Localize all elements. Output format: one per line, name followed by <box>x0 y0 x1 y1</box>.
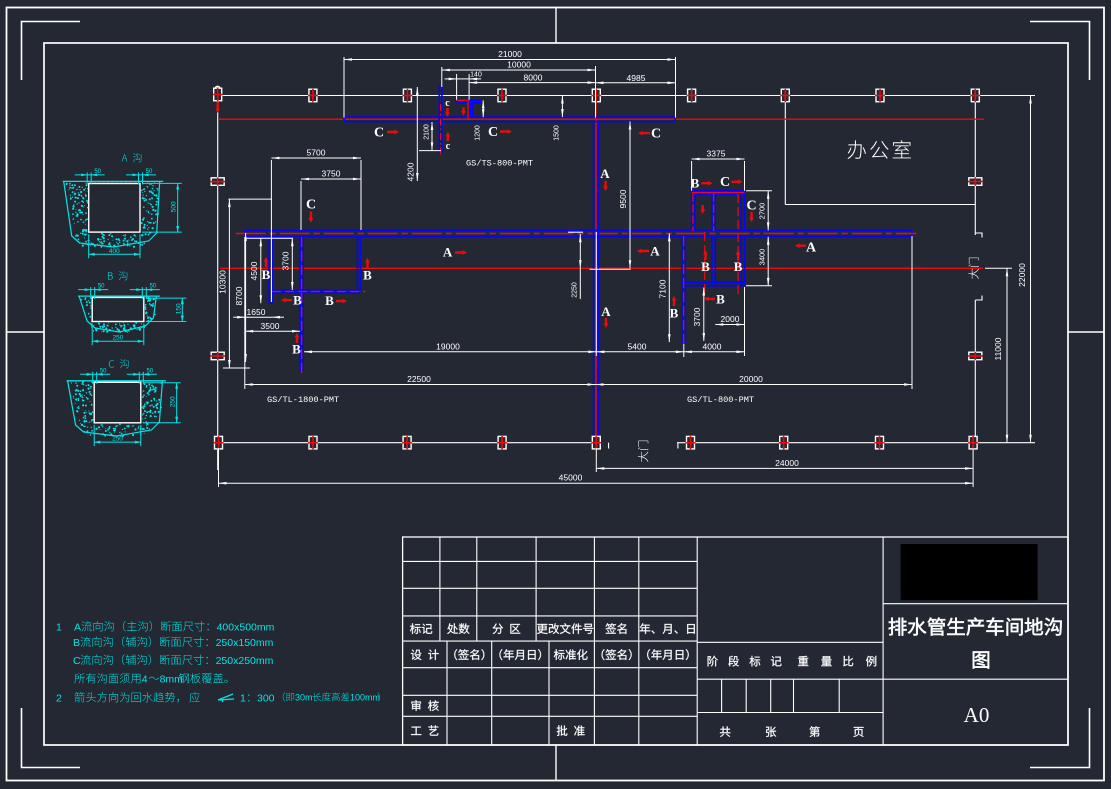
grid marker top x=691 <box>687 89 697 102</box>
svg-text:B: B <box>325 293 334 308</box>
svg-text:3700: 3700 <box>692 307 702 326</box>
right complex upper square right side <box>741 194 744 230</box>
title block right rows <box>883 603 1068 605</box>
left vertical trench x300 through <box>300 237 303 372</box>
svg-text:C: C <box>73 655 81 667</box>
svg-text:50: 50 <box>98 284 105 290</box>
ext line y268 right <box>985 267 1012 269</box>
right complex top bar <box>692 191 745 195</box>
svg-text:4200: 4200 <box>406 162 416 181</box>
dim 24000 <box>596 458 973 470</box>
ext y299 (1650) <box>244 299 246 321</box>
red dash centerline of main trench A <box>236 233 917 235</box>
centering mark left <box>7 331 45 333</box>
right wall lower <box>974 300 976 443</box>
dim 3700 right <box>692 288 705 342</box>
svg-text:B: B <box>262 267 271 282</box>
bottom gate tick right <box>677 443 679 449</box>
svg-text:50: 50 <box>146 169 153 175</box>
drawing title 排水管生产车间地沟图 <box>889 618 1062 636</box>
left branch B vertical x270 <box>269 237 272 304</box>
svg-text:10000: 10000 <box>507 60 531 70</box>
grid marker bottom x=783 <box>779 436 789 450</box>
label B + arrow up x297 lower <box>295 333 300 343</box>
svg-text:1500: 1500 <box>554 125 561 141</box>
dim 1500 <box>561 96 564 118</box>
grid marker bottom x=879 <box>875 436 885 450</box>
trench C small branch horizontal <box>456 100 482 103</box>
svg-text:2: 2 <box>56 693 62 705</box>
red centerline x738 <box>737 194 739 298</box>
svg-text:B: B <box>716 291 725 306</box>
dim 45000 <box>219 473 974 485</box>
section C-C trench detail <box>109 359 129 368</box>
dim 5400 <box>596 341 684 353</box>
svg-text:19000: 19000 <box>436 341 460 351</box>
title block upper-left grid <box>403 560 698 562</box>
svg-text:B: B <box>73 637 80 649</box>
svg-text:c: c <box>445 98 450 109</box>
svg-text:250: 250 <box>112 436 123 443</box>
svg-text:A: A <box>74 622 81 634</box>
red centerline lower vertical x301 <box>301 237 303 375</box>
slope symbol <box>218 694 234 702</box>
grid marker top x=785 <box>780 89 790 102</box>
svg-text:50: 50 <box>100 368 107 374</box>
svg-text:2100: 2100 <box>423 124 430 140</box>
ext x361 (5700/3750) <box>360 160 362 230</box>
cell 工艺 <box>411 725 438 735</box>
small red arrow down x702 <box>700 205 705 214</box>
section B-B trench detail <box>108 271 127 280</box>
dim 22500 <box>245 374 596 386</box>
grid marker top x=596 <box>591 89 601 102</box>
dim 11000 <box>993 268 1008 442</box>
label B + arrow up x266 <box>264 257 269 267</box>
label A + arrow left x795 (right side) <box>795 243 806 248</box>
ext x744.5 (3375) <box>744 161 746 191</box>
ext y285.7 right <box>746 285 772 287</box>
corner trim mark bottom-left <box>22 708 81 768</box>
dim 4000 <box>684 341 745 353</box>
svg-text:C: C <box>374 126 384 141</box>
svg-text:3700: 3700 <box>281 251 291 270</box>
svg-text:A0: A0 <box>964 703 990 727</box>
svg-text:20000: 20000 <box>739 374 763 384</box>
svg-text:8000: 8000 <box>524 73 543 83</box>
dim 22000 <box>1017 96 1032 443</box>
label office 办公室 <box>847 140 910 159</box>
svg-text:A: A <box>806 241 817 256</box>
label B + arrow up x674 <box>672 296 677 306</box>
left column grid line <box>217 86 219 470</box>
svg-text:250: 250 <box>113 335 124 342</box>
corner trim mark top-left <box>22 22 81 81</box>
ext line x469.1 <box>468 74 470 100</box>
grid marker bottom x=218 <box>214 436 224 450</box>
office partition left wall <box>784 96 786 205</box>
svg-text:3500: 3500 <box>261 321 280 331</box>
svg-text:100mm: 100mm <box>350 693 380 703</box>
svg-text:300: 300 <box>257 693 275 705</box>
grid marker top x=407 <box>402 89 412 102</box>
centering mark right <box>1068 331 1104 333</box>
trench C small branch vertical down <box>470 103 472 117</box>
ext x691.6 (3375) <box>691 161 693 191</box>
svg-text:140: 140 <box>470 72 482 79</box>
dim 19000 <box>304 341 596 353</box>
right complex upper square far-left side <box>692 194 695 230</box>
grid marker bottom x=973 <box>968 436 978 450</box>
ext y190.7 right <box>746 190 772 192</box>
svg-text:8700: 8700 <box>234 286 244 305</box>
dim 9500 <box>618 122 632 269</box>
ext line x595.5 <box>595 66 597 118</box>
right wall upper <box>974 96 976 236</box>
label B + arrow up x705 <box>703 250 708 260</box>
dim 1200 <box>482 100 485 117</box>
centering mark bottom <box>555 745 557 781</box>
svg-text:250x250mm: 250x250mm <box>216 655 274 667</box>
grid marker right wall y=181 <box>968 177 983 186</box>
svg-text:C: C <box>746 199 756 214</box>
right gate tick upper <box>975 233 982 238</box>
svg-text:C: C <box>488 125 498 140</box>
grid marker left wall y=356 <box>210 352 225 360</box>
small red arrow x463 <box>461 108 466 116</box>
svg-text:B: B <box>701 259 710 274</box>
right gate tick lower <box>975 296 982 301</box>
svg-text:250: 250 <box>170 396 177 407</box>
grid marker top-left with circle <box>215 86 220 91</box>
grid marker top x=312 <box>308 89 318 102</box>
grid marker top x=502 <box>497 89 507 102</box>
svg-text:22500: 22500 <box>407 374 431 384</box>
red flow arrow below top-left marker <box>215 102 220 114</box>
grid marker bottom x=407 <box>402 436 412 450</box>
red centerline lower (axis) <box>220 267 983 269</box>
grid marker bottom x=690 <box>686 436 696 450</box>
ext y368 <box>223 367 250 369</box>
dim 1650 <box>233 307 284 319</box>
svg-text:50: 50 <box>94 169 101 175</box>
right complex middle block left outer <box>682 237 686 286</box>
grid marker left wall y=181 <box>210 177 225 186</box>
svg-text:400: 400 <box>109 248 120 255</box>
dim 4500 <box>249 238 262 303</box>
right complex middle divider <box>712 237 715 286</box>
row: 设计 (签名) (年月日) 标准化 (签名) (年月日) <box>411 649 439 660</box>
svg-text:150: 150 <box>175 303 182 314</box>
dim 2700 <box>758 191 770 231</box>
svg-text:1: 1 <box>240 693 246 705</box>
svg-text:11000: 11000 <box>993 337 1003 360</box>
svg-text:4000: 4000 <box>703 341 722 351</box>
label B + arrow left x710 <box>704 297 715 302</box>
ext line x344 <box>343 57 345 118</box>
cell 审核 <box>411 700 438 711</box>
right complex red line under top bar <box>692 192 745 194</box>
svg-text:500: 500 <box>171 201 178 212</box>
dim 2000 <box>715 314 744 326</box>
grid marker bottom x=596 <box>591 436 601 450</box>
dim 2250 <box>579 234 581 299</box>
row: 标记 处数 分区 更改文件号 签名 年、月、日 <box>410 623 432 634</box>
svg-text:A: A <box>601 304 611 319</box>
right complex middle right outer <box>741 237 744 286</box>
bottom gate tick left <box>608 443 610 449</box>
svg-text:30m: 30m <box>295 693 313 703</box>
ext x218 down <box>218 448 220 487</box>
trench C along top wall (GS/TS-800-PMT) <box>344 117 675 122</box>
svg-text:400x500mm: 400x500mm <box>217 622 275 634</box>
ext x301 (3750) <box>300 181 302 230</box>
ext 2250 top <box>568 231 583 233</box>
dim 140 <box>445 72 482 81</box>
dim 8000 <box>469 73 595 84</box>
svg-text:B: B <box>292 342 301 357</box>
svg-text:9500: 9500 <box>618 189 628 208</box>
svg-text:7100: 7100 <box>658 279 668 298</box>
dim 3750 <box>301 169 361 181</box>
ext x912 <box>911 236 913 389</box>
label gate 大门 right wall <box>968 258 978 279</box>
label B + arrow up x367 <box>365 258 370 268</box>
title block outline <box>403 537 1068 745</box>
svg-text:50: 50 <box>146 368 153 374</box>
svg-text:2250: 2250 <box>572 282 579 298</box>
red centerline of branch x441 <box>440 104 442 156</box>
ext x744.5 down <box>744 287 746 356</box>
corner trim mark bottom-right <box>1030 708 1090 768</box>
grid marker bottom x=502 <box>497 436 507 450</box>
ext line x441.8 <box>441 67 443 87</box>
dim 10000 <box>442 60 596 72</box>
main trench A vertical (x596) <box>594 122 599 437</box>
grid marker bottom x=313 <box>308 436 318 450</box>
title block lower-left grid <box>403 667 698 669</box>
dim 8700 <box>234 233 247 362</box>
svg-text:4500: 4500 <box>249 261 259 280</box>
left right-branch vertical x358 <box>357 237 360 291</box>
svg-text:2700: 2700 <box>758 203 767 220</box>
svg-text:1200: 1200 <box>475 125 482 141</box>
title block mid small cells <box>721 679 723 712</box>
dim 4985 <box>596 73 676 84</box>
ext x596 down <box>595 448 597 472</box>
svg-text:C: C <box>651 127 661 142</box>
red centerline x705 <box>704 232 706 298</box>
svg-text:A: A <box>650 244 660 259</box>
title block row divider y641 <box>403 640 698 642</box>
title block mid rows <box>697 641 883 643</box>
dim 5700 <box>271 148 361 160</box>
svg-text:C: C <box>306 198 316 213</box>
svg-text:GS/TL-800-PMT: GS/TL-800-PMT <box>687 395 754 405</box>
top column grid line <box>222 95 1035 97</box>
dim 20000 <box>596 374 913 386</box>
svg-text:21000: 21000 <box>498 49 522 59</box>
dim 3700 left <box>281 238 294 290</box>
centering mark top <box>555 8 557 44</box>
ext y238 left <box>245 237 293 239</box>
svg-text:4: 4 <box>142 674 148 686</box>
svg-text:45000: 45000 <box>559 473 583 483</box>
bottom column grid line <box>218 442 1035 444</box>
dim 4200 <box>406 87 419 181</box>
svg-text:B: B <box>363 268 372 283</box>
ext y150.6 <box>419 150 441 152</box>
ext y199 left <box>229 198 273 200</box>
section A-A trench detail <box>122 153 142 162</box>
svg-text:B: B <box>691 176 700 191</box>
svg-text:5400: 5400 <box>628 341 647 351</box>
svg-text:c: c <box>446 141 451 152</box>
dim 21000 <box>344 49 676 61</box>
dim 3500 <box>245 321 300 333</box>
ext x683.8 <box>683 344 685 357</box>
redacted black box <box>901 544 1038 600</box>
dim 7100 <box>658 233 671 342</box>
left vertical trench x683 down <box>682 286 686 343</box>
svg-text:3400: 3400 <box>758 249 767 266</box>
svg-text:50: 50 <box>149 284 156 290</box>
ext x271 (5700) <box>270 160 272 302</box>
red centerline vertical main <box>595 98 597 440</box>
dim 3400 <box>758 237 770 286</box>
svg-text:2000: 2000 <box>721 314 740 324</box>
cell 批准 <box>557 725 585 736</box>
svg-text:5700: 5700 <box>307 148 326 158</box>
red centerline x693 <box>692 194 694 232</box>
dim 3375 <box>692 149 745 161</box>
svg-text:GS/TS-800-PMT: GS/TS-800-PMT <box>466 159 533 169</box>
label gate 大门 bottom wall <box>638 441 648 462</box>
red centerline upper (axis) <box>219 118 984 120</box>
grid marker top x=880 <box>875 89 885 102</box>
corner trim mark top-right <box>1030 22 1090 81</box>
ext line x675.5 <box>675 57 677 118</box>
svg-text:1: 1 <box>56 622 62 634</box>
grid marker top x=975 <box>970 89 980 102</box>
label c small + arrow up x447 lower <box>446 132 451 141</box>
dim 2100 <box>423 122 433 150</box>
bottom wall gate gap cover <box>601 440 677 446</box>
svg-text:4985: 4985 <box>627 73 646 83</box>
ext 9500 bottom <box>590 268 631 270</box>
svg-text:3375: 3375 <box>707 149 726 159</box>
svg-text:3750: 3750 <box>322 169 341 179</box>
svg-text:B: B <box>670 306 679 321</box>
svg-text:B: B <box>734 259 743 274</box>
red mark small branch <box>456 99 468 101</box>
red centerline x713.6 <box>713 194 715 232</box>
ext line x456.6 <box>456 74 458 100</box>
svg-text:A: A <box>600 166 610 181</box>
svg-text:B: B <box>293 293 302 308</box>
svg-text:1650: 1650 <box>247 307 266 317</box>
cells 共 张 第 页 <box>720 726 730 736</box>
label B + arrow up x738 <box>736 250 741 260</box>
cells 阶段标记 重量 比例 <box>708 656 782 667</box>
grid marker right wall y=356 <box>968 352 983 360</box>
svg-text:250x150mm: 250x150mm <box>216 637 274 649</box>
ext x596 for 19000 <box>595 232 597 356</box>
title block mid/right vertical dividers <box>696 537 698 745</box>
svg-text:22000: 22000 <box>1017 263 1027 287</box>
note line 4 <box>74 673 140 683</box>
label C + arrow left x650 <box>638 131 650 136</box>
trench C vertical branch x441 <box>439 87 442 154</box>
ext x245 (22500) <box>244 237 246 389</box>
svg-text:GS/TL-1800-PMT: GS/TL-1800-PMT <box>267 395 339 405</box>
svg-text:24000: 24000 <box>775 458 799 468</box>
red centerline x683 <box>683 236 685 348</box>
svg-text:C: C <box>720 175 730 190</box>
svg-text:A: A <box>443 245 453 260</box>
label B + arrow left x281 <box>281 298 292 303</box>
label A + arrow left x645 <box>637 249 649 254</box>
right complex upper square left side <box>712 194 715 230</box>
ext x973 down <box>972 448 974 487</box>
right complex block bottom <box>682 282 745 285</box>
left B bar red dash centerline <box>272 291 365 293</box>
svg-text:10300: 10300 <box>218 270 228 294</box>
main trench A horizontal (GS/TL-1800-PMT) <box>245 230 912 236</box>
dim 10300 <box>218 199 231 368</box>
office partition bottom wall <box>785 204 975 206</box>
left lower B bar horizontal <box>272 290 360 293</box>
